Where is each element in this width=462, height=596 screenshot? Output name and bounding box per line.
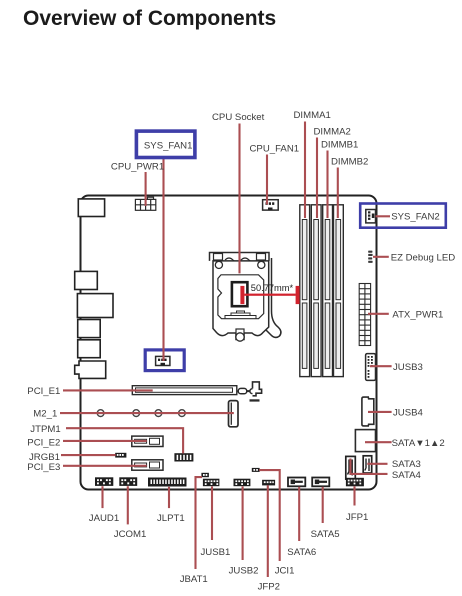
svg-text:DIMMA2: DIMMA2: [314, 127, 351, 138]
dimm slot 1: [300, 205, 310, 377]
line SYS_FAN1: [162, 158, 164, 362]
line SYS_FAN2: [376, 215, 391, 217]
right side: connector SYS_FAN2 highlighted: [360, 204, 446, 228]
line JAUD1: [101, 486, 103, 508]
io port A: [78, 199, 104, 217]
svg-text:SATA6: SATA6: [287, 547, 316, 558]
pcie x16 slot PCI_E1: [132, 382, 261, 396]
line JLPT1: [168, 487, 170, 508]
connector SATA6: [288, 478, 305, 487]
line DIMMB2: [337, 168, 339, 219]
line JFP1: [353, 486, 355, 505]
svg-text:JAUD1: JAUD1: [89, 513, 119, 524]
svg-text:SYS_FAN1: SYS_FAN1: [144, 141, 193, 152]
line SATA6: [298, 487, 300, 541]
line PCI_E2: [63, 440, 147, 442]
line JUSB4: [368, 411, 392, 413]
line CPU Socket: [238, 124, 240, 274]
svg-text:JBAT1: JBAT1: [180, 574, 208, 585]
connector JRGB1: [115, 453, 126, 458]
connector JCOM1: [119, 477, 137, 486]
connector JFP1: [346, 478, 364, 487]
connector SATA4 (left vertical): [346, 456, 356, 479]
svg-text:DIMMB1: DIMMB1: [321, 140, 358, 151]
connector JTPM1: [174, 453, 193, 461]
line DIMMA1: [304, 122, 306, 219]
connector JUSB4: [362, 397, 374, 426]
board outline: [81, 196, 377, 490]
pcie x1 slot PCI_E3: [132, 460, 163, 470]
line JBAT1: [196, 477, 203, 569]
io port D: [77, 294, 113, 318]
io port G audio: [75, 361, 106, 378]
line JFP2: [267, 485, 269, 577]
dimm slot 4: [334, 205, 344, 377]
svg-text:EZ Debug LED: EZ Debug LED: [391, 252, 456, 263]
connector SATA5: [312, 478, 329, 487]
connector CPU_PWR1: [135, 197, 155, 210]
connector JCI1: [252, 468, 260, 472]
svg-text:JUSB3: JUSB3: [393, 362, 423, 373]
svg-text:SATA3: SATA3: [392, 459, 421, 470]
dimm slot 2: [311, 205, 321, 377]
svg-text:JFP1: JFP1: [346, 512, 368, 523]
svg-text:JFP2: JFP2: [258, 581, 280, 592]
svg-text:PCI_E1: PCI_E1: [27, 386, 60, 397]
line PCI_E3: [63, 465, 147, 467]
svg-text:SATA4: SATA4: [392, 470, 422, 481]
io port E: [78, 320, 101, 338]
line SATA 1 2: [365, 441, 392, 443]
cpu center rect: [232, 282, 248, 306]
line JRGB1: [61, 454, 116, 456]
connector JUSB2: [234, 479, 251, 487]
line M2_1: [60, 412, 234, 414]
line JTPM1: [66, 428, 183, 453]
svg-text:ATX_PWR1: ATX_PWR1: [392, 309, 443, 320]
svg-text:JUSB2: JUSB2: [229, 566, 259, 577]
svg-text:PCI_E3: PCI_E3: [27, 462, 60, 473]
line ATX_PWR1: [368, 313, 389, 315]
svg-text:JLPT1: JLPT1: [157, 513, 185, 524]
line CPU_PWR1: [145, 172, 147, 206]
line JUSB1: [211, 486, 213, 540]
svg-text:M2_1: M2_1: [33, 409, 57, 420]
line CPU_FAN1: [266, 155, 268, 205]
svg-text:CPU_PWR1: CPU_PWR1: [111, 162, 164, 173]
line SATA4: [350, 459, 387, 474]
m2 screw holes: [97, 410, 185, 417]
io port C: [75, 271, 98, 289]
line JCOM1: [127, 486, 129, 524]
bottom row: connector JAUD1: [95, 477, 113, 486]
svg-text:DIMMB2: DIMMB2: [331, 157, 368, 168]
label SYS_FAN1 + blue box: [136, 131, 195, 157]
connector CPU_FAN1: [263, 200, 279, 210]
line PCI_E1: [63, 389, 153, 391]
pcie x1 slot PCI_E2: [132, 436, 163, 446]
svg-text:JUSB4: JUSB4: [393, 407, 424, 418]
connector JLPT1: [148, 478, 187, 487]
dimension 50.77mm: [240, 283, 299, 304]
m2 connector M2_1: [229, 401, 239, 427]
svg-text:JCI1: JCI1: [275, 566, 295, 577]
small bar below latch: [250, 399, 260, 401]
svg-text:SATA▼1▲2: SATA▼1▲2: [392, 438, 445, 449]
io port F: [78, 340, 101, 358]
connector SYS_FAN1 highlighted: [145, 350, 184, 371]
connector JFP2: [262, 480, 275, 486]
svg-text:Overview of Components: Overview of Components: [23, 7, 276, 30]
line JUSB2: [242, 486, 244, 560]
svg-text:SATA5: SATA5: [311, 529, 340, 540]
svg-text:SYS_FAN2: SYS_FAN2: [391, 212, 440, 223]
connector JUSB3: [366, 354, 376, 381]
line DIMMA2: [316, 138, 318, 219]
connector SATA 1 2: [355, 430, 375, 452]
line EZ Debug LED: [373, 256, 389, 258]
connector ATX_PWR1: [359, 284, 370, 346]
connector SATA3 (right vertical): [363, 456, 372, 473]
connector JUSB1: [203, 479, 220, 487]
svg-text:PCI_E2: PCI_E2: [27, 438, 60, 449]
svg-text:JCOM1: JCOM1: [114, 529, 147, 540]
ez debug led: [368, 251, 372, 263]
line JUSB3: [370, 365, 392, 367]
svg-text:DIMMA1: DIMMA1: [294, 110, 331, 121]
svg-text:50.77mm*: 50.77mm*: [251, 283, 294, 293]
svg-text:JUSB1: JUSB1: [201, 547, 231, 558]
svg-text:CPU_FAN1: CPU_FAN1: [250, 144, 300, 155]
svg-text:CPU Socket: CPU Socket: [212, 112, 265, 123]
connector JBAT1: [201, 473, 209, 477]
cpu socket: [210, 253, 281, 342]
line JCI1: [259, 470, 280, 561]
dimm slot 3: [323, 205, 333, 377]
line DIMMB1: [326, 151, 328, 219]
line SATA5: [322, 487, 324, 523]
svg-text:JTPM1: JTPM1: [30, 424, 60, 435]
line SATA3: [367, 463, 387, 465]
